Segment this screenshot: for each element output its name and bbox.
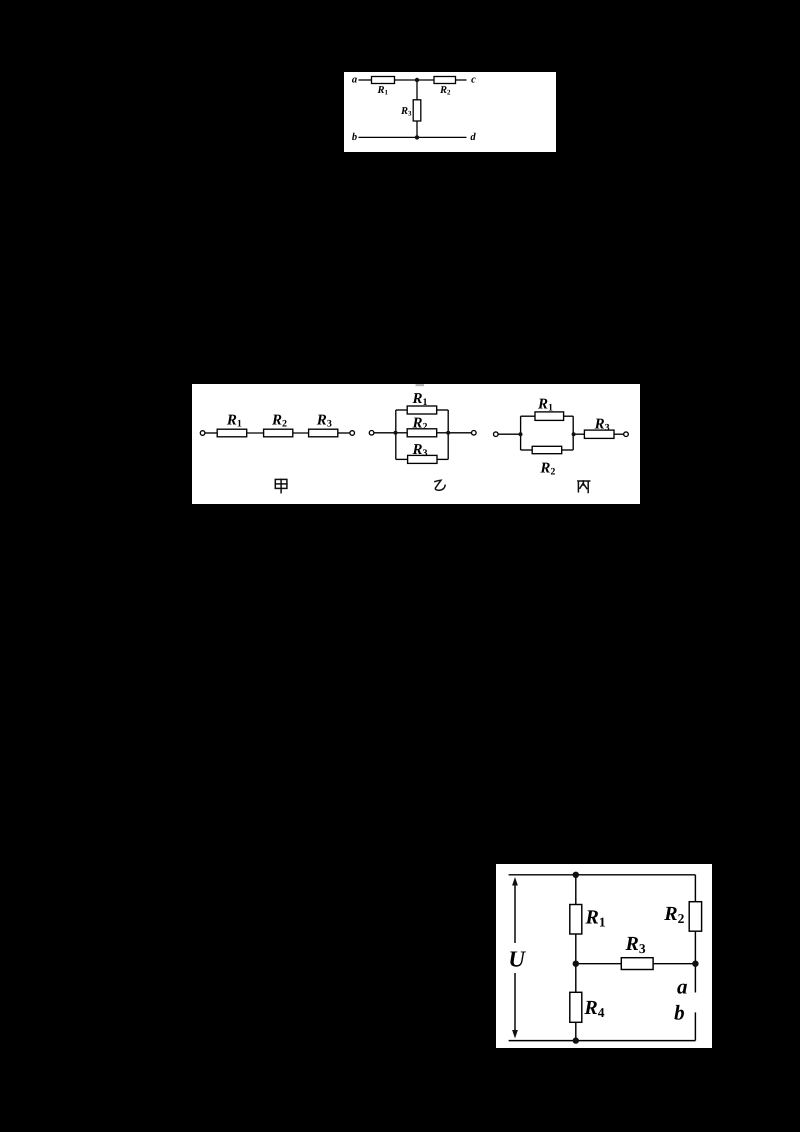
svg-text:b: b: [674, 1001, 685, 1025]
svg-text:a: a: [677, 974, 688, 998]
svg-text:b: b: [352, 132, 357, 143]
svg-text:U: U: [508, 946, 526, 971]
svg-text:a: a: [352, 75, 357, 86]
svg-text:d: d: [470, 132, 476, 143]
svg-text:c: c: [471, 75, 476, 86]
